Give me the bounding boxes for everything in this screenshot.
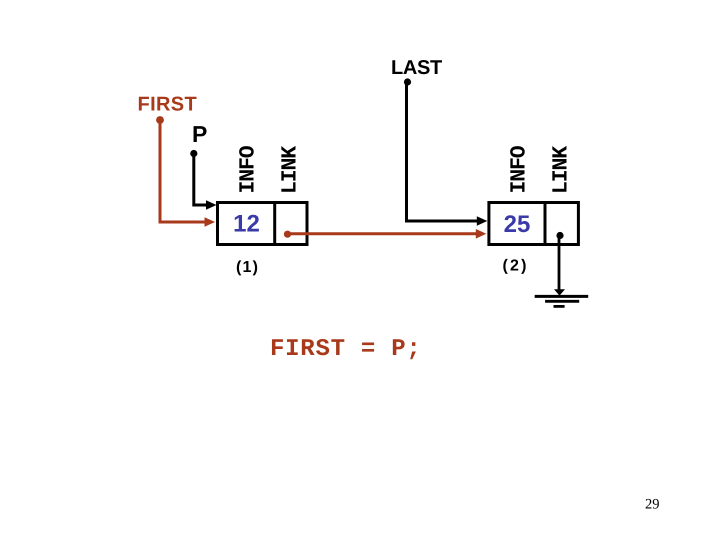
arrowhead FIRST pointer: [205, 217, 216, 227]
wire null terminator (node 2 LINK down to ground): [558, 236, 561, 291]
dot link origin (node 1 LINK cell): [284, 231, 291, 238]
arrowhead P pointer: [206, 200, 217, 210]
wire LAST pointer (black, down then right into node 2): [407, 82, 478, 221]
wire P pointer (black, down then right into node 1 top corner): [194, 154, 207, 206]
svg-text:LAST: LAST: [391, 57, 442, 79]
arrowhead null terminator: [554, 289, 565, 295]
dot LAST origin: [404, 78, 411, 85]
node 1 divider INFO/LINK: [273, 203, 276, 246]
svg-text:12: 12: [233, 211, 260, 238]
svg-text:(1): (1): [236, 259, 259, 276]
ground symbol bar 2: [545, 300, 579, 303]
svg-text:INFO: INFO: [237, 145, 261, 193]
arrowhead LAST pointer: [477, 216, 488, 226]
wire FIRST pointer (red, down then right into node 1): [160, 120, 205, 222]
ground symbol bar 1: [535, 295, 589, 298]
svg-text:(2): (2): [503, 258, 529, 275]
svg-text:FIRST = P;: FIRST = P;: [270, 336, 422, 363]
dot P origin: [190, 150, 197, 157]
arrowhead link node1 -> node2: [476, 229, 487, 239]
svg-text:25: 25: [504, 211, 531, 238]
node 2 box: [489, 203, 579, 245]
node 2 divider INFO/LINK: [544, 203, 547, 246]
dot FIRST origin: [156, 116, 164, 124]
svg-text:LINK: LINK: [550, 146, 574, 194]
node 1 box: [218, 203, 308, 245]
svg-text:FIRST: FIRST: [138, 94, 198, 116]
svg-text:LINK: LINK: [279, 146, 303, 194]
ground symbol bar 3: [554, 305, 565, 308]
svg-text:29: 29: [645, 497, 660, 513]
dot null origin (node 2 LINK cell): [556, 232, 563, 239]
svg-text:P: P: [192, 121, 207, 147]
svg-text:INFO: INFO: [508, 145, 532, 193]
wire link node1 -> node2 (red): [288, 232, 477, 235]
